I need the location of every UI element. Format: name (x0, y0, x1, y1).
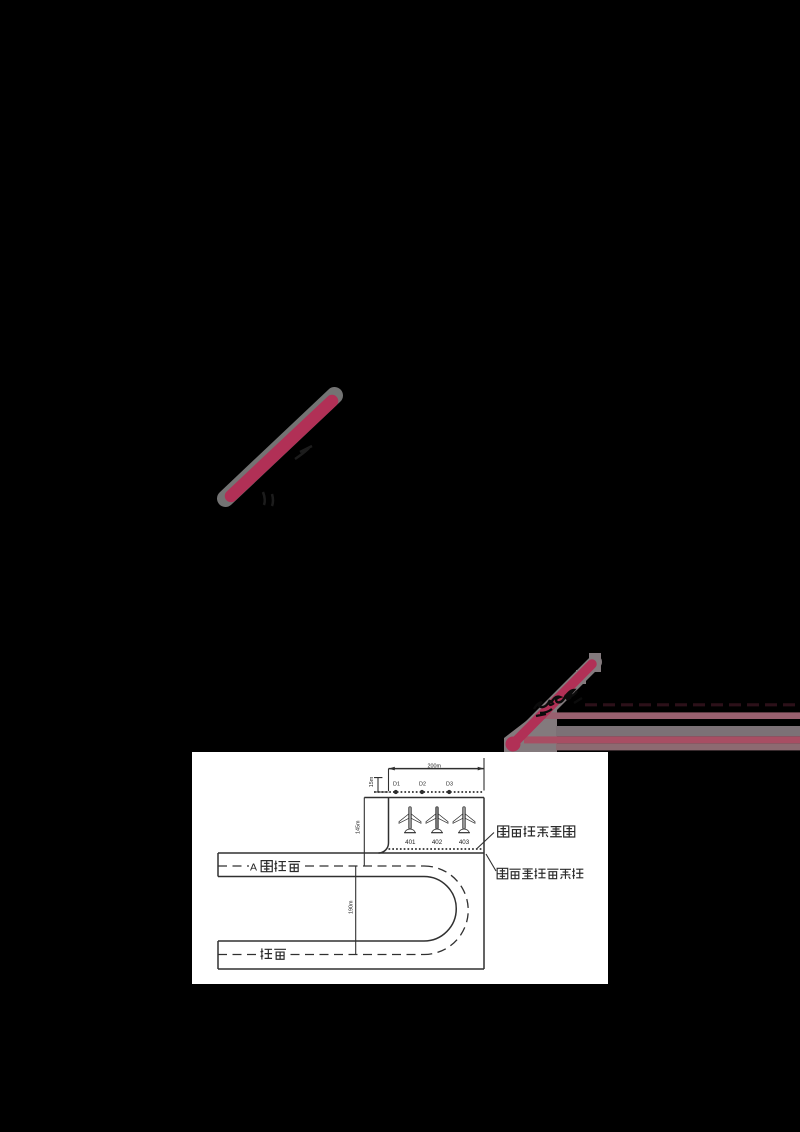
red pen stroke 1 (231, 401, 332, 496)
black handwriting scribbles over stroke 2 (534, 690, 582, 716)
190m extension line (355, 866, 357, 955)
big dot D3 (447, 790, 451, 794)
runway left cap (217, 941, 219, 969)
red blob at stroke 2 tip (506, 737, 521, 752)
svg-text:200m: 200m (428, 763, 442, 769)
svg-text:403: 403 (459, 839, 470, 846)
mauve band bottom (556, 743, 800, 750)
15m dimension line (374, 778, 389, 792)
U outer right edge + apron right edge (483, 798, 485, 970)
dark red dash row (585, 703, 800, 706)
red pen stroke 1 halo (226, 396, 335, 499)
200m dimension line (389, 768, 485, 770)
200m right arrow (478, 767, 484, 771)
svg-text:402: 402 (432, 839, 443, 846)
gray wedge right of stroke 2 (504, 705, 557, 752)
taxiway top edge (218, 852, 484, 854)
leader line lighting cable (477, 833, 494, 849)
label 现有滑行道边线 (497, 868, 508, 879)
svg-text:D2: D2 (419, 781, 426, 787)
label A滑行道 (249, 859, 304, 874)
gray step patch 1 (576, 670, 586, 684)
runway bottom edge (218, 968, 484, 970)
svg-text:401: 401 (405, 839, 416, 846)
200m right extension line (483, 758, 485, 791)
apron bottom dotted lighting-cable line (389, 848, 485, 850)
mauve band top (543, 712, 800, 719)
leader line taxiway edge (486, 854, 496, 871)
stop-bar dotted line D1-D3 (374, 791, 484, 793)
200m left arrow (389, 767, 395, 771)
dashed U centerline arc (424, 866, 468, 955)
aircraft 401 (399, 807, 421, 833)
label 跑道 (258, 946, 290, 961)
svg-text:D3: D3 (446, 781, 453, 787)
svg-text:A: A (250, 862, 257, 874)
white diagram panel (192, 752, 608, 984)
taxiway bottom edge + inner U arc + runway top edge (218, 877, 456, 942)
big dot D2 (420, 790, 424, 794)
svg-text:D1: D1 (393, 781, 400, 787)
145m extension line (363, 798, 365, 867)
red pen stroke 2 core (513, 664, 592, 744)
gray step patch 2 (589, 653, 601, 672)
taxiway dashed centerline (218, 865, 424, 867)
label 现有灯光电缆 (498, 826, 509, 837)
svg-text:15m: 15m (369, 776, 375, 787)
aircraft 402 (426, 807, 448, 833)
apron left edge with fillet (379, 798, 389, 854)
apron top edge (364, 797, 484, 799)
aircraft 403 (453, 807, 475, 833)
faint scratch marks near stroke 1 (263, 446, 312, 506)
gray band (556, 726, 800, 736)
big dot D1 (394, 790, 398, 794)
svg-text:145m: 145m (356, 820, 362, 834)
red pen stroke 2 halo (512, 662, 595, 745)
200m left extension line (388, 769, 390, 791)
red band (524, 736, 800, 743)
taxiway left cap (217, 853, 219, 877)
svg-text:190m: 190m (348, 900, 354, 914)
runway dashed centerline (218, 954, 424, 956)
